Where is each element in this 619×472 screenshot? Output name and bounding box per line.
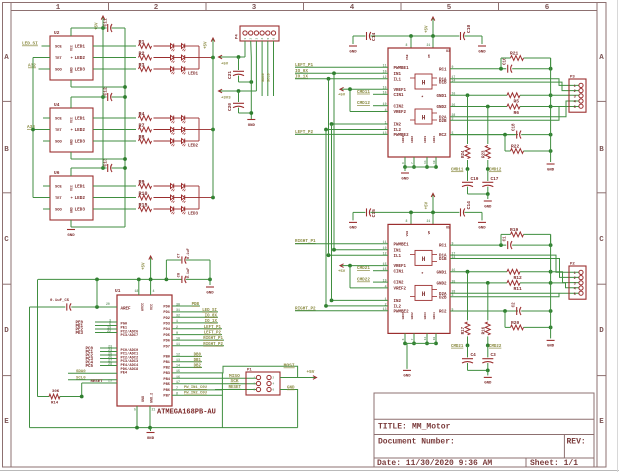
- wire LED row R7 to common: [185, 129, 199, 131]
- connector P2 pin 1 circle: [579, 270, 583, 274]
- junction RC2 right: [549, 309, 553, 313]
- junction R22 right: [549, 149, 553, 153]
- svg-text:GND_2: GND_2: [151, 393, 155, 403]
- junction GND rail C21: [249, 80, 253, 84]
- wire R7 to LEDs: [154, 129, 171, 131]
- svg-text:2: 2: [176, 326, 178, 330]
- svg-text:H: H: [422, 80, 426, 87]
- svg-text:21: 21: [152, 408, 156, 412]
- wire GND2 row U3 with resistor R6: [450, 106, 507, 108]
- svg-text:18: 18: [433, 337, 436, 341]
- connector P4 pin 1 circle: [243, 31, 247, 35]
- wire A32 to U2: [39, 68, 51, 70]
- wire LED row R3 to common: [185, 68, 199, 70]
- svg-text:5: 5: [134, 408, 136, 412]
- svg-text:C15: C15: [371, 209, 377, 218]
- svg-text:30K: 30K: [52, 390, 60, 394]
- junction GND rail U2: [123, 85, 127, 89]
- svg-text:U3: U3: [446, 50, 450, 54]
- svg-text:3: 3: [255, 38, 258, 40]
- wire D1A U3 to P3 pin1: [450, 79, 579, 86]
- svg-text:5: 5: [267, 38, 270, 40]
- svg-text:GND: GND: [248, 124, 256, 128]
- junction VCC rail C12: [101, 95, 105, 99]
- svg-text:B: B: [599, 146, 604, 154]
- wire GND1 row to P2 pin3: [551, 272, 579, 283]
- IC U6 LED driver box: [50, 176, 93, 220]
- svg-text:*: *: [421, 95, 424, 101]
- wire GND1 row U5 with resistor R12: [450, 271, 507, 273]
- svg-text:PB3: PB3: [163, 372, 170, 376]
- svg-text:CIN1: CIN1: [394, 94, 405, 98]
- resistor R8: [139, 139, 152, 144]
- svg-text:C: C: [4, 236, 9, 244]
- wire LED row R15 to common: [185, 208, 199, 210]
- junction RC2 left: [503, 133, 507, 137]
- svg-text:2: 2: [273, 377, 275, 380]
- svg-text:2: 2: [250, 38, 253, 40]
- wire R7 row from block: [93, 129, 136, 131]
- wire SCL0 to U1: [68, 379, 117, 381]
- resistor R2: [139, 55, 152, 60]
- svg-text:C12: C12: [103, 87, 109, 96]
- svg-text:P1: P1: [247, 369, 252, 373]
- svg-text:C7: C7: [178, 253, 182, 258]
- wire GND2 row U5 with resistor R11: [450, 282, 507, 284]
- svg-text:R23: R23: [482, 150, 486, 158]
- svg-text:20: 20: [106, 302, 110, 306]
- svg-text:11: 11: [176, 343, 180, 347]
- wire SDA0 to U1: [68, 372, 117, 374]
- svg-text:GND: GND: [349, 50, 357, 54]
- svg-text:R24: R24: [462, 150, 466, 158]
- svg-text:30: 30: [176, 303, 180, 307]
- ground symbol U5 top-right: [481, 212, 483, 220]
- junction +5V AREF riser: [95, 278, 99, 282]
- svg-text:SCE: SCE: [55, 186, 63, 190]
- svg-text:PE3: PE3: [76, 332, 84, 336]
- svg-text:R14: R14: [51, 402, 59, 406]
- svg-text:P2: P2: [570, 263, 575, 267]
- junction VREF U5: [348, 264, 352, 268]
- svg-text:IN2: IN2: [394, 124, 402, 128]
- wire LED row R2 to common: [185, 57, 199, 59]
- wire RC2 U5: [450, 310, 518, 312]
- svg-text:4: 4: [153, 289, 155, 293]
- svg-text:C4: C4: [471, 353, 477, 358]
- svg-text:GND: GND: [142, 396, 146, 402]
- wire D2B U5 join: [450, 293, 559, 297]
- svg-text:*: *: [421, 271, 424, 277]
- wire LED row R8 to common: [185, 140, 199, 142]
- svg-text:LED1: LED1: [75, 185, 86, 190]
- svg-text:8: 8: [176, 393, 178, 397]
- svg-text:IN1: IN1: [394, 249, 402, 253]
- junction GND1 row left: [466, 270, 470, 274]
- svg-text:GND: GND: [478, 50, 486, 54]
- wire VCC rail vertical x103: [102, 28, 104, 168]
- capacitor C21: [238, 57, 240, 70]
- wire VREF2 L U3: [349, 89, 351, 111]
- wire U6 SDO stub: [43, 208, 50, 210]
- svg-text:C11: C11: [103, 18, 109, 27]
- svg-text:PD5: PD5: [163, 334, 170, 338]
- connector P2 pin 5 circle: [579, 291, 583, 295]
- resistor R9: [139, 184, 152, 189]
- resistor R23 vertical: [487, 107, 489, 145]
- svg-text:C14: C14: [466, 201, 472, 210]
- wire U4 CKI stub: [33, 129, 50, 131]
- svg-text:14: 14: [424, 337, 427, 341]
- wire U5 top +5V rail: [353, 211, 365, 213]
- wire VREF2 L U5: [349, 266, 351, 288]
- capacitor C15: [366, 208, 368, 216]
- wire C21 bottom to GND rail: [238, 76, 240, 82]
- svg-text:RC1: RC1: [439, 245, 447, 249]
- svg-text:R6: R6: [514, 110, 520, 116]
- wire RC2 U3: [450, 134, 518, 136]
- svg-text:C18: C18: [513, 123, 517, 131]
- junction +5V AVCC: [137, 278, 141, 282]
- junction CMD12 node: [486, 167, 490, 171]
- junction GND rail C20: [249, 111, 253, 115]
- wire GND rail vertical x125: [124, 28, 126, 227]
- svg-text:18: 18: [135, 289, 139, 293]
- wire C5 left: [30, 306, 66, 308]
- junction GND rail C12: [123, 95, 127, 99]
- svg-text:D2B: D2B: [439, 120, 447, 124]
- resistor R4: [139, 116, 152, 121]
- junction GND2 row left: [486, 105, 490, 109]
- junction U5 VSB: [409, 211, 413, 215]
- svg-text:R21: R21: [510, 51, 519, 57]
- wire LED row R4 to common: [185, 117, 199, 119]
- svg-text:5: 5: [574, 106, 576, 110]
- svg-text:CIN2: CIN2: [394, 282, 405, 286]
- svg-text:R20: R20: [511, 320, 520, 326]
- LED pair row R4: [171, 116, 174, 121]
- svg-text:14: 14: [424, 160, 427, 164]
- power +5V arrow U5 VREF: [341, 265, 350, 267]
- wire C12 row: [103, 96, 107, 98]
- frame inner left/right/top lines: [10, 3, 12, 468]
- junction GND1 row right: [549, 270, 553, 274]
- wire P4 pin3 to +3V3: [255, 41, 257, 91]
- svg-text:IL1: IL1: [394, 78, 402, 82]
- svg-text:C2: C2: [513, 302, 517, 308]
- svg-text:IN2: IN2: [394, 300, 402, 304]
- svg-text:SOO: SOO: [55, 141, 63, 145]
- svg-text:PB2: PB2: [163, 367, 170, 371]
- resistor R17 vertical: [467, 272, 469, 321]
- wire U1 pin PE1: [95, 325, 117, 327]
- svg-text:GND1: GND1: [436, 271, 447, 275]
- svg-text:PD1: PD1: [163, 311, 170, 315]
- svg-text:VCC: VCC: [70, 117, 74, 123]
- wire chain vertical CKI bus: [32, 58, 34, 198]
- svg-text:GND2: GND2: [436, 106, 447, 110]
- junction +5V rail LED2: [211, 128, 215, 132]
- IC U4 LED driver box: [50, 108, 93, 152]
- wire bottom GND bus: [30, 427, 298, 429]
- junction U5 VM: [431, 211, 435, 215]
- wire GND1 row U3 with resistor R5: [450, 94, 507, 96]
- wire RESET to U1: [82, 382, 117, 384]
- svg-text:+5V: +5V: [338, 94, 346, 98]
- svg-text:10: 10: [176, 337, 180, 341]
- wire U5 VSB stub: [410, 212, 412, 224]
- connector P2 box: [569, 266, 586, 299]
- connector P4 pin 5 circle: [266, 31, 270, 35]
- svg-text:GND: GND: [547, 168, 555, 172]
- svg-text:LED3: LED3: [188, 213, 199, 217]
- svg-text:+5V: +5V: [426, 25, 430, 33]
- connector P1 pin 2 circle: [267, 375, 271, 379]
- H-bridge 1 symbol U3: [415, 74, 432, 89]
- wire U3 top +5V rail: [353, 35, 365, 37]
- svg-text:GND2: GND2: [436, 283, 447, 287]
- svg-text:TET: TET: [55, 57, 63, 61]
- wire U3 bottom GND bus: [405, 166, 436, 168]
- resistor R14 30K: [38, 396, 50, 398]
- junction U3 VSB: [409, 34, 413, 38]
- svg-text:VCC: VCC: [70, 45, 74, 51]
- wire U5 VM stub: [432, 212, 434, 224]
- svg-text:H: H: [422, 256, 426, 263]
- LED pair row R9: [171, 184, 174, 189]
- svg-text:4: 4: [261, 38, 264, 40]
- ground symbol U3 top-left: [352, 36, 354, 44]
- wire IL2 U3: [326, 129, 388, 131]
- svg-text:PB1: PB1: [163, 361, 170, 365]
- svg-text:H: H: [422, 115, 426, 122]
- svg-text:2: 2: [574, 277, 576, 281]
- capacitor C18 series RC2: [516, 131, 518, 139]
- junction GND1 row left: [466, 93, 470, 97]
- frame column ticks: [108, 3, 110, 11]
- wire net IO_1X to U3 IL1: [329, 78, 389, 80]
- resistor R15: [139, 207, 152, 212]
- junction GND rail U4: [123, 157, 127, 161]
- wire GND1 row to P3 pin3: [551, 94, 579, 96]
- svg-text:12: 12: [176, 354, 180, 358]
- wire U2 GND stub: [70, 80, 72, 87]
- wire +5V LED rail vertical: [212, 58, 214, 198]
- junction C21 top: [237, 55, 241, 59]
- wire C8 right: [186, 278, 210, 280]
- connector P2 pin 4 circle: [579, 286, 583, 290]
- wire U6 GND stub: [70, 220, 72, 227]
- wire CMD21 to CIN1: [373, 270, 388, 272]
- junction R22 right: [549, 326, 553, 330]
- ground symbol U1: [150, 428, 152, 431]
- svg-text:14: 14: [176, 365, 180, 369]
- svg-text:R12: R12: [514, 275, 523, 281]
- svg-text:U4: U4: [54, 102, 60, 108]
- wire U1 pin PB0 net DB0: [172, 355, 202, 357]
- wire U1 pin PE3: [95, 332, 117, 334]
- wire IN2 U3: [332, 123, 389, 125]
- junction VCC rail C11: [101, 26, 105, 30]
- svg-text:R19: R19: [510, 227, 519, 233]
- svg-text:R8: R8: [139, 134, 145, 140]
- wire U1 pin PD6 net RIGHT_P1: [172, 339, 224, 341]
- wire IL2 U5: [326, 305, 388, 307]
- wire IN2 vertical bus: [331, 124, 333, 300]
- svg-text:C3: C3: [491, 353, 497, 358]
- LED pair row R7: [171, 127, 174, 132]
- svg-text:D: D: [599, 327, 604, 335]
- wire D2B U3 join: [450, 107, 559, 121]
- svg-text:R10: R10: [139, 191, 148, 197]
- svg-text:C8: C8: [178, 272, 182, 277]
- svg-text:VM: VM: [428, 54, 431, 58]
- svg-text:TITLE:: TITLE:: [378, 423, 407, 432]
- junction C7/C8 GND node: [208, 278, 212, 282]
- connector P4 pin 3 circle: [254, 31, 258, 35]
- junction +5V rail LED1: [211, 56, 215, 60]
- LED pair row R10: [171, 195, 174, 200]
- connector P4 pin 4 circle: [260, 31, 264, 35]
- svg-text:C21: C21: [227, 71, 233, 79]
- wire D1A U5 to P2 pin1: [450, 255, 579, 272]
- junction caps join U5: [486, 369, 490, 373]
- connector P1 ISP header box: [246, 372, 280, 395]
- svg-text:A: A: [599, 54, 604, 62]
- wire VREF1 U5: [350, 265, 388, 267]
- svg-text:R5: R5: [514, 99, 520, 105]
- svg-text:GND: GND: [70, 207, 74, 213]
- power +5V arrow at P4: [220, 56, 230, 58]
- svg-text:P4: P4: [236, 34, 240, 39]
- svg-text:P3: P3: [570, 76, 575, 80]
- wire R15 row from block: [93, 208, 136, 210]
- junction RC1 left: [499, 67, 503, 71]
- wire U2 VCC stub: [70, 28, 72, 36]
- wire CMD22 to CIN2: [373, 281, 388, 283]
- svg-text:R2: R2: [139, 51, 145, 57]
- wire R10 to LEDs: [154, 197, 171, 199]
- wire AVCC stub: [138, 279, 140, 295]
- wire C11 row: [103, 27, 107, 29]
- svg-text:1: 1: [574, 272, 576, 276]
- power +3V3 arrow at P4: [220, 90, 239, 92]
- svg-text:REV:: REV:: [567, 438, 586, 447]
- power +5V arrow LED anode rail: [212, 39, 214, 58]
- svg-text:LED2: LED2: [75, 196, 86, 201]
- wire U1 pin PB1 net DB1: [172, 361, 202, 363]
- svg-text:GND: GND: [67, 234, 75, 238]
- wire U1 pin PD0 net PDB: [172, 305, 200, 307]
- svg-text:PD4: PD4: [163, 328, 170, 332]
- wire D2A U5 to P2 pin5: [450, 292, 579, 294]
- wire IO_1X vertical bus: [328, 79, 330, 255]
- wire C5 left rail down to GND bus: [29, 307, 31, 428]
- svg-text:LED3: LED3: [75, 140, 86, 145]
- svg-text:GND: GND: [403, 375, 411, 379]
- H-bridge 1 symbol U5: [415, 250, 432, 265]
- wire LEFT_P2 to PWMBE2: [295, 133, 388, 135]
- resistor R21 parallel: [500, 58, 502, 69]
- wire LED mid row to +5V rail: [199, 129, 213, 131]
- wire LED common vertical LED1: [198, 46, 200, 69]
- wire VREF1 U3: [350, 88, 388, 90]
- svg-text:LED3: LED3: [75, 68, 86, 73]
- svg-text:4: 4: [350, 4, 355, 12]
- svg-text:PD7: PD7: [163, 345, 170, 349]
- svg-text:E: E: [599, 418, 604, 426]
- svg-text:VSB: VSB: [406, 231, 409, 237]
- svg-text:GND2: GND2: [411, 312, 414, 319]
- svg-text:PC5: PC5: [86, 365, 94, 369]
- svg-text:GND: GND: [147, 437, 155, 441]
- svg-text:R22: R22: [511, 144, 520, 150]
- svg-text:VCC: VCC: [151, 304, 155, 310]
- wire U1 pin PD2 net IO_0X: [172, 316, 218, 318]
- wire IN2 U5: [332, 299, 389, 301]
- svg-text:7: 7: [176, 387, 178, 391]
- svg-text:GND: GND: [547, 345, 555, 349]
- junction RESET/R14: [80, 395, 84, 399]
- wire R14 to +5V rail: [37, 279, 39, 396]
- svg-text:GND3: GND3: [424, 136, 427, 143]
- wire U1 pin PD3 net IO_1X: [172, 322, 218, 324]
- wire LED mid row to +5V rail: [199, 57, 213, 59]
- svg-text:GND: GND: [70, 67, 74, 73]
- wire VCC stub: [150, 279, 152, 295]
- svg-text:AREF: AREF: [121, 307, 132, 311]
- svg-text:PD6: PD6: [163, 340, 170, 344]
- wire R8 to LEDs: [154, 140, 171, 142]
- ground symbol U5 bottom: [406, 343, 408, 369]
- connector P3 pin 5 circle: [579, 104, 583, 108]
- wire P4 pin6: [273, 41, 275, 96]
- svg-text:PE4: PE4: [121, 372, 128, 376]
- svg-text:A: A: [4, 54, 9, 62]
- wire U4 pin SDI stub: [43, 117, 50, 119]
- wire net IO_0X to U3 IN1: [334, 72, 388, 74]
- svg-text:C20: C20: [227, 103, 233, 111]
- junction U3 VM: [431, 34, 435, 38]
- svg-text:U5: U5: [446, 226, 450, 230]
- junction CMD22 node: [486, 344, 490, 348]
- svg-text:7: 7: [411, 162, 414, 164]
- svg-text:U1: U1: [115, 288, 121, 294]
- ground symbol U5 right: [547, 339, 555, 341]
- svg-text:GND: GND: [478, 227, 486, 231]
- wire U1 pin PD4 net LEFT_P1: [172, 328, 222, 330]
- capacitor C14: [366, 32, 368, 40]
- IC U2 LED driver box: [50, 36, 93, 80]
- wire RC1 U3: [450, 68, 506, 70]
- svg-text:+5V: +5V: [338, 270, 346, 274]
- wire P4 pin1 to +5V: [244, 41, 246, 57]
- wire P4 pin5 SCL0: [267, 41, 269, 96]
- wire U1 pin PC2: [100, 354, 117, 356]
- svg-text:GND: GND: [206, 291, 214, 295]
- wire U1 pin PD5 net LEFT_P2: [172, 334, 222, 336]
- svg-text:6: 6: [273, 38, 276, 40]
- wire U2 pin CKI stub: [33, 57, 50, 59]
- wire U1 pin PD1 net LED_SI: [172, 311, 218, 313]
- svg-text:SCE: SCE: [55, 118, 63, 122]
- power +5V arrow U3 VREF: [341, 88, 350, 90]
- svg-text:1: 1: [56, 4, 61, 12]
- junction VREF U3: [348, 87, 352, 91]
- wire U5 bottom GND bus: [405, 342, 436, 344]
- svg-text:PWMBE1: PWMBE1: [394, 243, 410, 247]
- wire GND2 row to P2 pin4: [551, 283, 579, 288]
